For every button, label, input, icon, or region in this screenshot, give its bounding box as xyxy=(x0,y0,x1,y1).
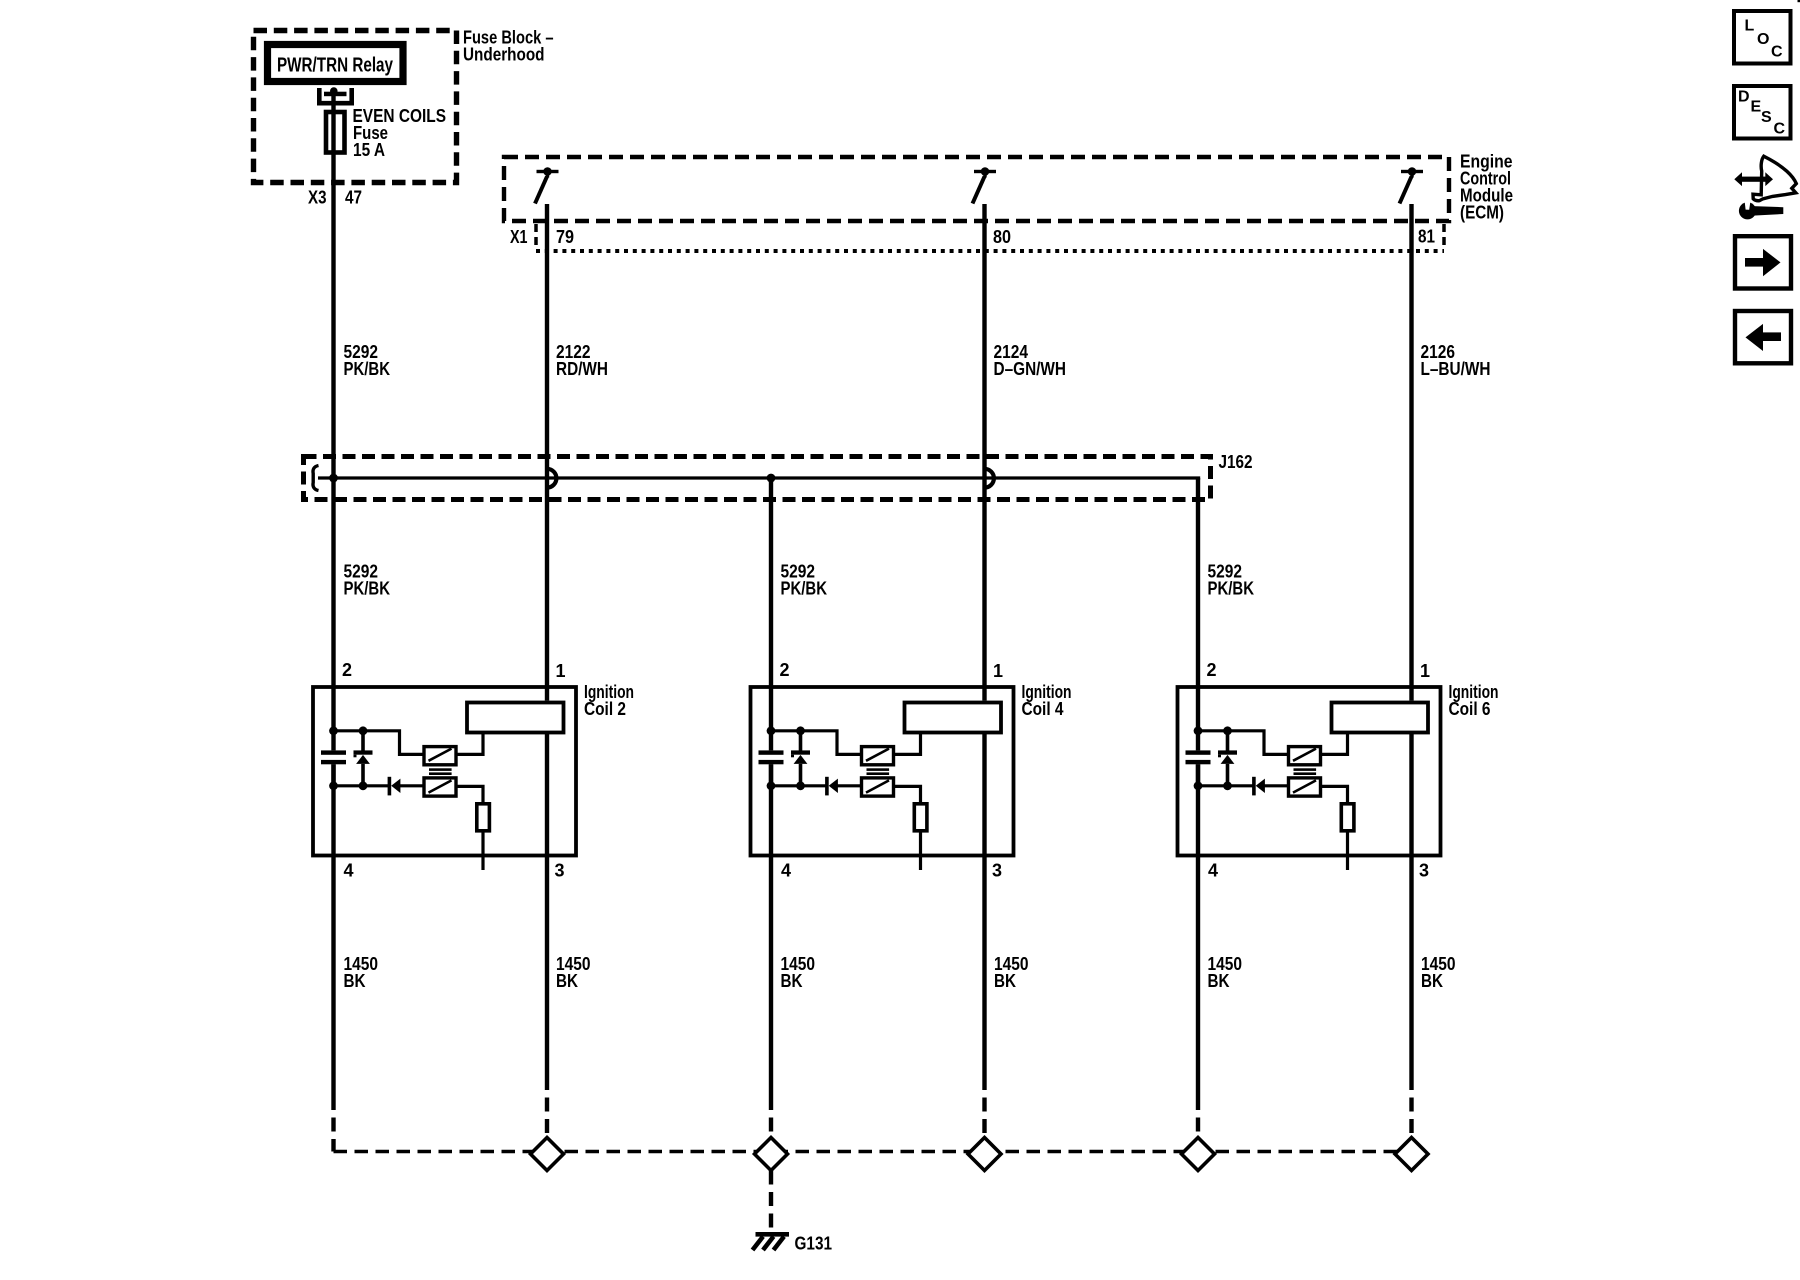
svg-text:(ECM): (ECM) xyxy=(1460,203,1504,223)
svg-text:L: L xyxy=(1745,18,1755,35)
svg-text:BK: BK xyxy=(781,971,803,991)
svg-text:G131: G131 xyxy=(795,1234,833,1254)
svg-text:L–BU/WH: L–BU/WH xyxy=(1421,359,1491,379)
svg-text:BK: BK xyxy=(1208,971,1230,991)
svg-text:E: E xyxy=(1751,99,1762,116)
svg-text:3: 3 xyxy=(555,861,565,881)
svg-text:1: 1 xyxy=(556,661,566,681)
svg-text:S: S xyxy=(1761,109,1772,126)
svg-text:3: 3 xyxy=(992,861,1002,881)
svg-text:2: 2 xyxy=(1207,660,1217,680)
svg-text:47: 47 xyxy=(345,188,362,208)
svg-text:C: C xyxy=(1771,43,1783,60)
svg-text:2: 2 xyxy=(780,660,790,680)
svg-text:Coil 6: Coil 6 xyxy=(1449,699,1491,719)
svg-text:BK: BK xyxy=(556,971,578,991)
svg-text:2: 2 xyxy=(342,660,352,680)
svg-text:X3: X3 xyxy=(308,188,327,208)
svg-text:80: 80 xyxy=(993,227,1011,247)
svg-text:15 A: 15 A xyxy=(353,140,385,160)
svg-text:C: C xyxy=(1774,121,1786,138)
svg-text:Coil 4: Coil 4 xyxy=(1022,699,1064,719)
svg-text:4: 4 xyxy=(781,861,791,881)
svg-text:RD/WH: RD/WH xyxy=(556,359,608,379)
svg-text:Coil 2: Coil 2 xyxy=(584,699,626,719)
svg-text:J162: J162 xyxy=(1219,452,1253,472)
svg-text:4: 4 xyxy=(1208,861,1218,881)
svg-text:PK/BK: PK/BK xyxy=(781,579,828,599)
svg-text:3: 3 xyxy=(1419,861,1429,881)
svg-text:PWR/TRN Relay: PWR/TRN Relay xyxy=(277,55,394,77)
svg-text:4: 4 xyxy=(344,861,354,881)
svg-text:81: 81 xyxy=(1418,227,1435,247)
svg-text:D: D xyxy=(1738,88,1750,105)
svg-text:X1: X1 xyxy=(510,227,528,247)
svg-text:BK: BK xyxy=(994,971,1016,991)
svg-text:PK/BK: PK/BK xyxy=(344,359,391,379)
svg-text:O: O xyxy=(1757,31,1769,48)
svg-text:BK: BK xyxy=(1421,971,1443,991)
svg-text:1: 1 xyxy=(993,661,1003,681)
svg-text:Underhood: Underhood xyxy=(463,45,545,65)
svg-text:79: 79 xyxy=(556,227,574,247)
svg-text:D–GN/WH: D–GN/WH xyxy=(994,359,1067,379)
svg-text:PK/BK: PK/BK xyxy=(1208,579,1255,599)
svg-text:1: 1 xyxy=(1420,661,1430,681)
svg-text:PK/BK: PK/BK xyxy=(344,579,391,599)
svg-text:BK: BK xyxy=(344,971,366,991)
